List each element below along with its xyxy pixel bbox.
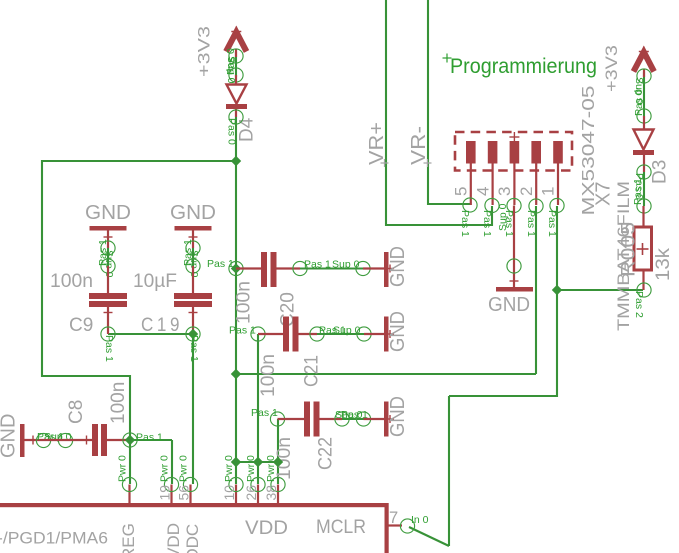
label 100n (C20) [234,281,255,324]
pin circle D4 cathode [229,110,243,124]
svg-text:Pas 1: Pas 1 [136,432,163,444]
svg-text:GND: GND [387,396,409,437]
svg-text:GND: GND [488,294,530,316]
svg-text:19: 19 [157,485,173,501]
pin circle C21 left [251,327,265,341]
pin circle X7 pin 4 [485,198,499,212]
IC pin 7 MCLR stub [388,524,402,526]
pin circle IC pin 10 [229,477,243,491]
pin circle C20 gnd [356,261,370,275]
wire C19 gnd net [192,248,194,266]
svg-text:X7: X7 [593,182,615,206]
pin label Pas 0 (D3 anode) [633,89,645,116]
pin circle IC pin 7 [400,519,414,533]
svg-text:Pas 1: Pas 1 [546,210,558,237]
label 10uF [133,271,177,292]
svg-text:2: 2 [517,187,536,196]
pin circle C19 GND [186,241,200,255]
ground symbol at C19 [175,226,212,248]
svg-text:10µF: 10µF [133,271,177,292]
svg-text:Pas 1: Pas 1 [525,210,537,237]
wire VDD C8 to pin19 column [130,439,172,441]
pin circle +3V3 D4 supply [229,49,243,63]
IC pin name AVDD (clipped) [164,523,183,553]
pin circle IC pin 19 [164,477,178,491]
label GND (C8, rotated) [0,414,20,458]
svg-text:Pas 1: Pas 1 [229,325,256,337]
pin label Pas 1 (X7 pin5) [459,210,471,237]
pin circle IC power pin x=129.5 [122,477,136,491]
label C19 [141,315,183,336]
ground symbol right of C22 [364,402,395,437]
pin circle R005 bottom [637,283,651,297]
ground symbol right of C21 [364,317,394,352]
wire X7 pin2 vertical [535,206,537,374]
pin number 1 (X7) [539,187,558,196]
wire VDD C9-C19 bottom [108,333,193,335]
svg-text:C22: C22 [316,437,337,470]
svg-text:Pas 0: Pas 0 [633,89,645,116]
pin circle IC pin 38 [271,477,285,491]
svg-text:VDD: VDD [245,517,288,539]
pin label Sup 0 (C20 gnd) [332,259,360,271]
svg-text:ENVREG: ENVREG [119,523,138,553]
pin circle D4 anode [229,68,243,82]
wire VDD vertical C21 to junction [257,334,259,462]
label C9 [69,315,93,336]
pin circle C21 right [310,327,324,341]
svg-text:VR-: VR- [408,126,430,165]
svg-text:In 0: In 0 [411,514,429,526]
svg-text:GND: GND [387,311,409,352]
label C8 [66,400,87,424]
label GND (C21, rotated) [387,311,409,352]
svg-text:C19: C19 [141,315,183,336]
net label VR+ [366,122,389,167]
label 100n (C22) [274,437,295,480]
pin number 38 [263,485,279,501]
label C20 [278,292,299,327]
pin circle X7 pin 1 [550,198,564,212]
wire D4 supply to anode [235,52,237,77]
wire VR- vertical [427,0,429,205]
wire MCLR diagonal to pin 7 [409,527,449,546]
capacitor C8 [43,424,130,456]
pin label Pwr 0 (IC pin 56) [178,455,190,482]
pin label Pas 1 (C20 right) [304,259,331,271]
pin circle +3V3 D3 supply [637,69,651,83]
wire VDD main vertical x=236 [235,117,237,484]
junction VDD row 2 [253,457,263,467]
pin label Sup 0 (C22 gnd) [335,409,363,421]
svg-text:Pas 1: Pas 1 [481,210,493,237]
pin stub D4 supply [235,49,237,57]
svg-text:AVDD: AVDD [164,523,183,553]
wire VDD vertical to IC pin 19 [171,440,173,484]
svg-text:100n: 100n [258,354,279,397]
IC power pin x=129.5 stub [128,485,130,504]
pin label Pas 1 (X7 pin4) [481,210,493,237]
pin label Pas 1 (C21 left) [229,325,256,337]
svg-text:-/PGD1/PMA6: -/PGD1/PMA6 [0,529,108,548]
label +3V3 (left) [195,26,214,77]
net label VR- [408,126,432,167]
svg-text:GND: GND [387,246,409,287]
pin circle IC pin 56 [183,477,197,491]
label GND (C22, rotated) [387,396,409,437]
resistor R005 [634,206,652,290]
wire D3 cathode to R005 [643,172,645,206]
pin circle C21 gnd [357,327,371,341]
svg-text:Pas 1: Pas 1 [459,210,471,237]
IC pin name MCLR [316,516,366,538]
pin label Pas 0 (D3 cathode) [633,173,645,200]
pin label Pas 1 (C22 left) [251,407,278,419]
pin circle C8 right [123,433,137,447]
svg-text:100n: 100n [234,281,255,324]
wire VDD junction row horizontal [236,461,278,463]
wire MCLR horizontal [449,395,558,397]
svg-text:GND: GND [0,414,20,458]
svg-text:56: 56 [176,485,192,501]
pin label In 0 (pin 7) [411,514,429,526]
ground symbol at C9 [90,226,127,248]
capacitor C22 [278,402,343,437]
IC pin name -/PGD1/PMA6 [0,529,108,548]
IC pin 26 stub [257,485,259,504]
svg-text:C9: C9 [69,315,93,336]
svg-text:C8: C8 [66,400,87,424]
label X7 [593,182,615,206]
pin circle D3 anode [637,109,651,123]
pin label Sup 0 (C8 gnd) [44,431,72,443]
label R005 [619,222,640,277]
IC pin 10 stub [235,485,237,504]
junction VDD row 3 [273,457,283,467]
pin label Pas 1 (C19 top) [182,239,194,266]
wire C21 to GND [317,333,364,335]
pin label Pas 1 (X7 pin3) [503,210,515,237]
pin label Sup 0 (C9 gnd) [103,250,115,278]
pin label Sup 0 (X7 gnd) [497,203,509,231]
diode D3 [633,116,654,172]
wire VDD vertical into C8 [129,375,131,440]
capacitor C9 [89,266,127,334]
svg-text:VDDC: VDDC [183,524,202,553]
pin label Pwr 0 (IC pin 38) [265,455,277,482]
pin circle C9 top [101,259,115,273]
wire VDD vertical to IC pin 26 [257,462,259,484]
wire VDD left vertical [41,160,43,377]
pin label Sup 0 (C19 gnd) [188,250,200,278]
pin circle C9 bottom [101,327,115,341]
wire C20 to GND [300,267,363,269]
pin number 4 (X7) [473,187,492,196]
capacitor C20 [236,252,300,287]
svg-text:Pwr 0: Pwr 0 [159,455,171,482]
pin label Sup 0 (D3 supply) [633,77,645,105]
wire VDD vertical to IC pin (left) [129,440,131,484]
junction C20 left [231,263,241,273]
pin label Pas 1 (C22 right) [341,409,368,421]
wire C9 gnd net [107,248,109,266]
svg-text:Pas 2: Pas 2 [633,291,645,318]
svg-text:100n: 100n [50,271,93,292]
pin label Pwr 0 (IC pin 19) [159,455,171,482]
wire MCLR vertical down [556,290,558,397]
label GND (below X7) [488,294,530,316]
pin circle C22 right [335,412,349,426]
wire MCLR vertical left [448,396,450,546]
pin label Pas 0 (D4 cathode) [226,118,238,145]
pin label Sup 0 (C21 gnd) [333,325,361,337]
svg-text:5: 5 [452,187,471,196]
svg-text:R005: R005 [619,222,640,277]
wire VDD vertical to IC pin 38 [277,462,279,484]
IC body outline [0,503,389,553]
pin label Pas 0 (D4 anode) [225,48,237,75]
pin stub D3 supply [643,69,645,77]
junction MCLR tap [552,285,562,295]
svg-text:26: 26 [243,485,259,501]
+3V3 supply symbol arrow (left) [226,27,247,52]
label MX53047-05 [578,86,598,216]
junction VDD top [231,156,241,166]
svg-text:Pas 1: Pas 1 [182,239,194,266]
IC pin name VDDCORE (clipped) [183,524,202,553]
svg-text:Pwr 0: Pwr 0 [245,455,257,482]
svg-text:Pas 1: Pas 1 [103,335,115,362]
svg-text:13k: 13k [653,247,674,281]
pin label Sup 0 (D4 supply) [225,56,237,84]
pin circle C22 gnd [356,412,370,426]
svg-text:Pwr 0: Pwr 0 [223,455,235,482]
pin label Pas 1 (C9 bottom) [103,335,115,362]
svg-text:Pas 0: Pas 0 [226,118,238,145]
pin label Pas 1 (X7 pin1) [546,210,558,237]
label C21 [302,355,323,387]
label 100n (C8) [108,382,129,424]
wire VR- horizontal to pin 5 [427,203,470,205]
pin number 5 (X7) [452,187,471,196]
label GND (C19) [170,202,216,224]
pin number 10 [221,485,237,501]
pin circle IC pin 26 [251,477,265,491]
label 100n (C21) [258,354,279,397]
svg-text:38: 38 [263,485,279,501]
pin label Pwr 0 (IC pin 10) [223,455,235,482]
label GND (C9) [85,202,131,224]
wire VR+ horizontal [385,224,492,226]
svg-text:1: 1 [539,187,558,196]
pin label Pwr 0 (IC pin 26) [245,455,257,482]
svg-text:+3V3: +3V3 [195,26,214,77]
pin circle D3 cathode [637,165,651,179]
pin number 3 (X7) [495,187,514,196]
pin label Pas 1 (C8 right) [136,432,163,444]
ground symbol below X7 pin 3 [496,206,533,292]
wire VDD vertical C22 to junction [277,419,279,462]
ground symbol right of C20 [363,252,394,287]
svg-text:3: 3 [495,187,514,196]
svg-text:Sup 0: Sup 0 [497,203,509,231]
junction C8 right [125,435,135,445]
pin label Pas 1 (C21 right) [319,325,346,337]
wire MCLR pin1 vertical [556,206,558,291]
pin label Pas 1 (C9 top) [97,239,109,266]
svg-text:Pwr 0: Pwr 0 [178,455,190,482]
capacitor C21 [258,317,317,352]
wire D3 supply to anode [643,72,645,116]
svg-text:Pwr 0: Pwr 0 [117,455,129,482]
wire VR+ up to pin 4 [491,206,493,226]
junction VDD pin2 tap [231,369,241,379]
pin circle C22 left [270,412,284,426]
pin circle X7 gnd [507,259,521,273]
junction C19 bottom [188,329,198,339]
wire VDD horizontal mid-left [41,375,130,377]
pin circle C20 left [229,261,243,275]
svg-text:Pas 1: Pas 1 [37,431,64,443]
capacitor C19 [174,266,212,334]
wire VDD vertical C19 to IC pin 56 [192,334,194,484]
label D3 [650,160,671,184]
pin label Pas 1 (C8 left) [37,431,64,443]
pin number 7 [389,509,398,527]
svg-text:MCLR: MCLR [316,516,366,538]
wire X7 pin2 horizontal to VDD [236,373,536,375]
pin circle X7 pin 3 [507,198,521,212]
label Programmierung [443,54,598,79]
IC pin 56 stub [189,485,191,504]
IC pin name VDD [245,517,288,539]
pin label Pas 2 (R005 bottom) [633,291,645,318]
pin circle C8 GND [36,433,50,447]
pin number 26 [243,485,259,501]
label D4 [237,117,258,142]
svg-text:Pas 0: Pas 0 [225,48,237,75]
pin label Pas 1 (C20 left) [207,258,234,270]
pin number 2 (X7) [517,187,536,196]
pin label Pwr 0 (IC power pin x=129.5) [117,455,129,482]
pin circle X7 pin 5 [463,198,477,212]
label GND (C20, rotated) [387,246,409,287]
label +3V3 (right) [602,45,621,92]
label TMMBAT46FILM [614,181,633,331]
svg-text:7: 7 [389,509,398,527]
svg-text:D3: D3 [650,160,671,184]
svg-text:4: 4 [473,187,492,196]
svg-text:Pas 1: Pas 1 [632,178,644,205]
wire VR+ vertical [385,0,387,226]
wire C22 to GND [342,418,364,420]
pin number 56 [176,485,192,501]
junction VDD row 1 [231,457,241,467]
diode D4 [226,75,247,117]
pin circle C19 top [186,259,200,273]
+3V3 supply symbol arrow (right) [634,47,655,72]
svg-text:Programmierung: Programmierung [450,55,597,78]
IC pin 19 stub [170,485,172,504]
svg-text:C21: C21 [302,355,323,387]
pin label Pas 1 (C19 bottom) [188,335,200,362]
ground symbol at C8 [20,424,43,457]
label C22 [316,437,337,470]
connector X7 MX53047-05 [455,132,572,205]
pin circle X7 pin 2 [529,199,543,213]
svg-text:Pas 1: Pas 1 [207,258,234,270]
pin number 19 [157,485,173,501]
svg-text:Pwr 0: Pwr 0 [265,455,277,482]
svg-text:VR+: VR+ [366,122,388,165]
pin label Pas 1 (R005 top) [632,178,644,205]
pin circle C19 bottom [186,327,200,341]
svg-text:10: 10 [221,485,237,501]
svg-text:+3V3: +3V3 [602,45,621,92]
wire VDD horizontal top [41,160,236,162]
svg-text:D4: D4 [237,117,258,142]
svg-text:Sup 0: Sup 0 [333,325,361,337]
pin circle R005 top [637,199,651,213]
pin circle C9 GND [101,241,115,255]
pin circle C8 left [58,433,72,447]
svg-text:GND: GND [85,202,131,224]
label 13k [653,247,674,281]
svg-text:Sup 0: Sup 0 [335,409,363,421]
wire MCLR junction to resistor [557,289,643,291]
svg-text:100n: 100n [108,382,129,424]
label 100n (C9) [50,271,93,292]
svg-text:Pas 1: Pas 1 [251,407,278,419]
IC pin name ENVREG (clipped) [119,523,138,553]
svg-text:Sup 0: Sup 0 [332,259,360,271]
IC pin 38 stub [277,485,279,504]
pin circle C20 right [293,261,307,275]
svg-text:GND: GND [170,202,216,224]
svg-text:Pas 1: Pas 1 [97,239,109,266]
pin label Pas 1 (X7 pin2) [525,210,537,237]
svg-text:Pas 1: Pas 1 [188,335,200,362]
